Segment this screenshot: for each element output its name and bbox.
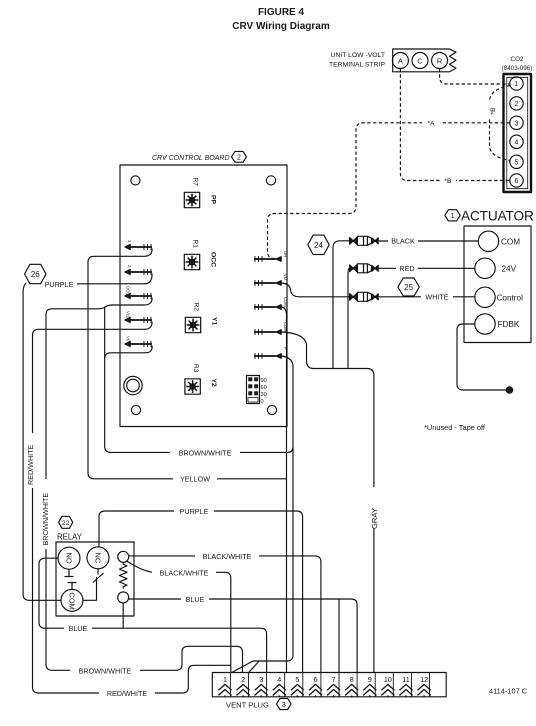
svg-text:PURPLE: PURPLE — [180, 507, 209, 516]
vent plug pin 9 — [363, 675, 376, 697]
relay contact NC switch — [83, 569, 104, 601]
label BLUE — [181, 594, 209, 604]
wire board left pin5 hook to splice column — [105, 346, 152, 359]
svg-text:BROWN/WHITE: BROWN/WHITE — [79, 666, 132, 675]
vent plug pin 4 — [273, 675, 286, 697]
svg-text:(8403-096): (8403-096) — [502, 65, 533, 72]
board left pin 3 OCC — [125, 286, 152, 299]
wire dashed A to CO2 pin 6, net *B — [400, 69, 509, 181]
mounting hole top-left — [131, 176, 140, 185]
svg-text:3: 3 — [259, 675, 263, 684]
CO2 pin 2 — [510, 97, 523, 110]
vent plug pin 5 — [291, 675, 304, 697]
label RED — [396, 264, 418, 274]
vent plug pin 11 — [399, 675, 412, 697]
svg-text:PP: PP — [210, 195, 217, 205]
taped wire end dot — [506, 386, 514, 394]
svg-text:TERMINAL STRIP: TERMINAL STRIP — [329, 62, 385, 69]
wire BLACK/WHITE relay coil to vent pin 6 — [129, 556, 321, 673]
svg-text:COM: COM — [68, 593, 77, 610]
hexagon callout 25 — [398, 278, 419, 296]
svg-text:C: C — [417, 56, 423, 65]
label BROWN/WHITE — [170, 448, 240, 458]
CO2 pin 3 — [510, 116, 523, 129]
svg-text:COM: COM — [501, 237, 520, 246]
potentiometer R3 — [185, 364, 217, 394]
svg-text:RELAY: RELAY — [57, 533, 83, 542]
mounting hole bottom-right — [267, 405, 276, 414]
board right pin 5 — [254, 347, 288, 359]
label YELLOW — [173, 474, 217, 484]
hexagon callout 22 — [59, 516, 73, 528]
svg-text:VENT PLUG: VENT PLUG — [226, 701, 269, 710]
svg-text:CRV Wiring Diagram: CRV Wiring Diagram — [232, 21, 330, 32]
actuator terminal Control — [475, 287, 523, 307]
hexagon callout 3 — [277, 698, 292, 709]
svg-text:R: R — [437, 56, 443, 65]
actuator terminal COM — [478, 231, 520, 251]
relay armature NO-COM — [65, 569, 77, 589]
mounting hole bottom-left — [131, 405, 140, 414]
svg-text:3: 3 — [282, 702, 286, 709]
svg-text:R1: R1 — [192, 240, 199, 249]
label BLACK/WHITE 2 — [152, 568, 216, 578]
label PURPLE — [174, 506, 214, 516]
svg-text:5: 5 — [515, 160, 519, 167]
svg-text:3: 3 — [515, 121, 519, 128]
svg-text:V6: V6 — [126, 336, 131, 342]
svg-text:COM: COM — [283, 297, 288, 307]
svg-text:24V: 24V — [502, 264, 517, 273]
svg-text:R3: R3 — [192, 364, 199, 373]
svg-text:9: 9 — [368, 675, 372, 684]
svg-text:8: 8 — [350, 675, 354, 684]
wire FDBK unused tape off — [457, 324, 506, 390]
wire dashed R to CO2 pin 1 — [440, 69, 510, 85]
svg-text:1: 1 — [515, 81, 519, 88]
svg-text:*A: *A — [427, 121, 435, 128]
wire BROWN/WHITE branch from pin3 tee down to splice column — [105, 307, 293, 453]
svg-text:ACTUATOR: ACTUATOR — [461, 209, 534, 224]
board left pin 5 — [125, 336, 152, 347]
svg-text:30: 30 — [261, 392, 267, 398]
connector CO2 (8403-096) — [502, 56, 533, 192]
splice connector on WHITE — [350, 292, 379, 301]
svg-text:RED/WHITE: RED/WHITE — [26, 444, 35, 485]
board left pin 2 — [125, 265, 152, 275]
svg-text:25: 25 — [404, 283, 413, 292]
terminal R — [432, 53, 448, 69]
svg-text:NC: NC — [94, 553, 103, 564]
svg-text:OCC: OCC — [210, 252, 217, 267]
wire dashed jumper CO2 pin1 to pin5, net *B — [490, 86, 511, 161]
potentiometer R1 — [184, 240, 216, 270]
wire board right pin3 down to vent pin 4 — [282, 307, 287, 673]
svg-text:PURPLE: PURPLE — [45, 280, 74, 289]
svg-text:OCC: OCC — [126, 286, 131, 295]
svg-text:*B: *B — [490, 107, 497, 115]
wire BLUE relay coil bottom to vent pins 7 8 — [129, 599, 357, 673]
svg-text:1: 1 — [223, 675, 227, 684]
svg-text:BLACK/WHITE: BLACK/WHITE — [203, 552, 252, 561]
label *B on A wire — [440, 176, 456, 186]
svg-text:*B: *B — [444, 178, 452, 185]
svg-text:2: 2 — [241, 675, 245, 684]
wire board left pin3 to BROWN/WHITE riser to vent pin 2 — [46, 298, 243, 673]
vent plug connector J1 — [212, 673, 446, 697]
svg-text:12: 12 — [420, 675, 428, 684]
hexagon callout 1 — [445, 210, 460, 221]
board right pin 3 — [254, 297, 288, 310]
terminal A — [392, 53, 408, 69]
board left pin 4 — [125, 311, 152, 323]
svg-text:UNIT LOW -VOLT: UNIT LOW -VOLT — [330, 52, 385, 59]
label *B on jumper — [487, 102, 498, 117]
wire PURPLE net relay NC to vent pin 5 — [99, 511, 303, 673]
svg-text:11: 11 — [402, 675, 409, 684]
wire dashed net *A from CO2 pin 3 to CRV board pin — [268, 123, 510, 259]
svg-text:A: A — [398, 56, 403, 65]
mounting hole top-right — [266, 176, 275, 185]
svg-text:*Unused - Tape off: *Unused - Tape off — [424, 423, 486, 432]
wire board left pin1 to YELLOW to vent riser tee — [88, 249, 287, 479]
wire board right pin4 to GRAY to vent pin 9 — [282, 332, 374, 673]
splice connector on RED — [350, 264, 379, 273]
vent plug slot ticks — [230, 673, 429, 697]
board right pin 2 — [254, 274, 288, 286]
svg-text:7: 7 — [332, 675, 336, 684]
svg-text:10: 10 — [384, 675, 392, 684]
svg-text:Y1: Y1 — [211, 317, 218, 326]
wire board left pin4 to RED/WHITE riser to vent — [33, 322, 231, 694]
vent plug pin 8 — [345, 675, 358, 697]
label RED/WHITE bottom — [99, 688, 155, 698]
wire WHITE actuator Control — [282, 283, 475, 297]
board DIP jumper block 90/60/30/0 — [247, 376, 267, 406]
relay contact COM — [61, 589, 83, 611]
relay K1 box — [56, 533, 134, 617]
label BROWN/WHITE bottom — [70, 666, 140, 676]
svg-text:BROWN/WHITE: BROWN/WHITE — [41, 493, 50, 546]
svg-text:GR: GR — [283, 251, 288, 257]
relay coil terminal top — [118, 551, 129, 562]
svg-text:Control: Control — [497, 293, 524, 302]
svg-text:1: 1 — [451, 211, 455, 220]
label *A — [422, 118, 440, 128]
svg-text:VO: VO — [283, 274, 288, 281]
relay coil zigzag — [119, 562, 127, 588]
vent plug pin 7 — [327, 675, 340, 697]
svg-text:RED/WHITE: RED/WHITE — [107, 689, 148, 698]
svg-text:BLACK: BLACK — [391, 237, 415, 246]
label PURPLE — [41, 279, 77, 289]
wire board left pin2 to PURPLE to hexagon 26 — [44, 274, 152, 284]
svg-text:26: 26 — [31, 270, 40, 279]
svg-text:2: 2 — [237, 155, 241, 162]
label WHITE — [421, 292, 453, 302]
vent plug pin 6 — [309, 675, 322, 697]
CO2 pin 6 — [510, 174, 523, 187]
svg-text:BLUE: BLUE — [69, 624, 88, 633]
CO2 pin 1 — [510, 77, 523, 90]
board right pin 1 — [254, 251, 288, 262]
svg-text:2: 2 — [515, 101, 519, 108]
vent plug pin 3 — [255, 675, 268, 697]
board large ring — [124, 376, 142, 394]
svg-text:4114-107 C: 4114-107 C — [489, 687, 528, 696]
svg-text:BLACK/WHITE: BLACK/WHITE — [160, 568, 209, 577]
label BLACK/WHITE — [195, 551, 259, 561]
TITLE — [232, 7, 330, 32]
svg-text:6: 6 — [314, 675, 318, 684]
hexagon callout 26 — [25, 264, 46, 283]
label BLACK — [388, 236, 418, 246]
wire RED actuator 24V — [348, 268, 475, 368]
svg-text:COM: COM — [283, 322, 288, 332]
vent plug pin 10 — [381, 675, 394, 697]
hexagon callout 24 — [308, 235, 329, 254]
svg-text:R2: R2 — [193, 303, 200, 312]
svg-text:YELLOW: YELLOW — [180, 475, 210, 484]
hexagon callout 2 — [232, 151, 247, 162]
svg-text:22: 22 — [62, 520, 70, 527]
svg-text:GRAY: GRAY — [370, 508, 379, 529]
terminal C — [412, 53, 428, 69]
svg-text:CRV CONTROL BOARD: CRV CONTROL BOARD — [152, 155, 230, 162]
label BLUE lower — [64, 623, 92, 633]
svg-text:90: 90 — [261, 378, 267, 384]
svg-text:60: 60 — [261, 385, 267, 391]
actuator terminal FDBK — [475, 314, 520, 334]
board right pin 4 — [254, 322, 288, 335]
svg-text:6: 6 — [515, 178, 519, 185]
vent plug pin 12 — [418, 675, 431, 697]
CRV control board outline U-board — [120, 155, 287, 427]
relay contact NO — [58, 547, 80, 569]
svg-text:BLUE: BLUE — [186, 595, 205, 604]
wire hexagon26 down to relay COM — [23, 283, 61, 600]
svg-text:FIGURE 4: FIGURE 4 — [258, 7, 305, 18]
svg-text:4: 4 — [515, 140, 519, 147]
svg-text:CO2: CO2 — [511, 56, 524, 63]
relay contact NC — [87, 547, 109, 569]
svg-text:FDBK: FDBK — [498, 320, 520, 329]
svg-text:BROWN/WHITE: BROWN/WHITE — [179, 448, 232, 457]
wire BLACK actuator COM — [333, 241, 478, 369]
svg-text:24: 24 — [314, 241, 323, 250]
actuator U1 — [461, 209, 534, 343]
vent plug pin 2 — [237, 675, 250, 697]
svg-text:0: 0 — [261, 399, 264, 405]
actuator terminal 24V — [475, 258, 517, 278]
svg-text:V10: V10 — [126, 311, 131, 319]
wire board right pin5 down to vent pin 1 diagonal — [232, 356, 293, 673]
svg-text:NO: NO — [65, 553, 74, 564]
board left pin 1 — [125, 240, 152, 250]
svg-text:RED: RED — [399, 264, 414, 273]
svg-text:5: 5 — [295, 675, 299, 684]
unit low-volt terminal strip box — [329, 49, 456, 72]
vent plug pin 1 — [218, 675, 231, 697]
svg-text:P: P — [283, 347, 288, 350]
potentiometer R7 — [184, 178, 216, 208]
svg-text:4: 4 — [277, 675, 281, 684]
CO2 pin 5 — [510, 155, 523, 168]
CO2 pin 4 — [510, 135, 523, 148]
wire relay coil bottom drop to BLUE net — [122, 603, 124, 628]
svg-text:WHITE: WHITE — [425, 293, 448, 302]
wire BLACK/WHITE diagonal from relay coil to vent pin 1 — [127, 561, 231, 673]
splice connector on BLACK — [350, 236, 379, 245]
relay coil terminal bottom — [118, 592, 129, 603]
svg-text:R7: R7 — [192, 178, 199, 187]
svg-text:Y2: Y2 — [210, 379, 217, 388]
wire BLUE relay NO to vent pin 3 — [39, 558, 267, 673]
potentiometer R2 — [185, 303, 217, 333]
